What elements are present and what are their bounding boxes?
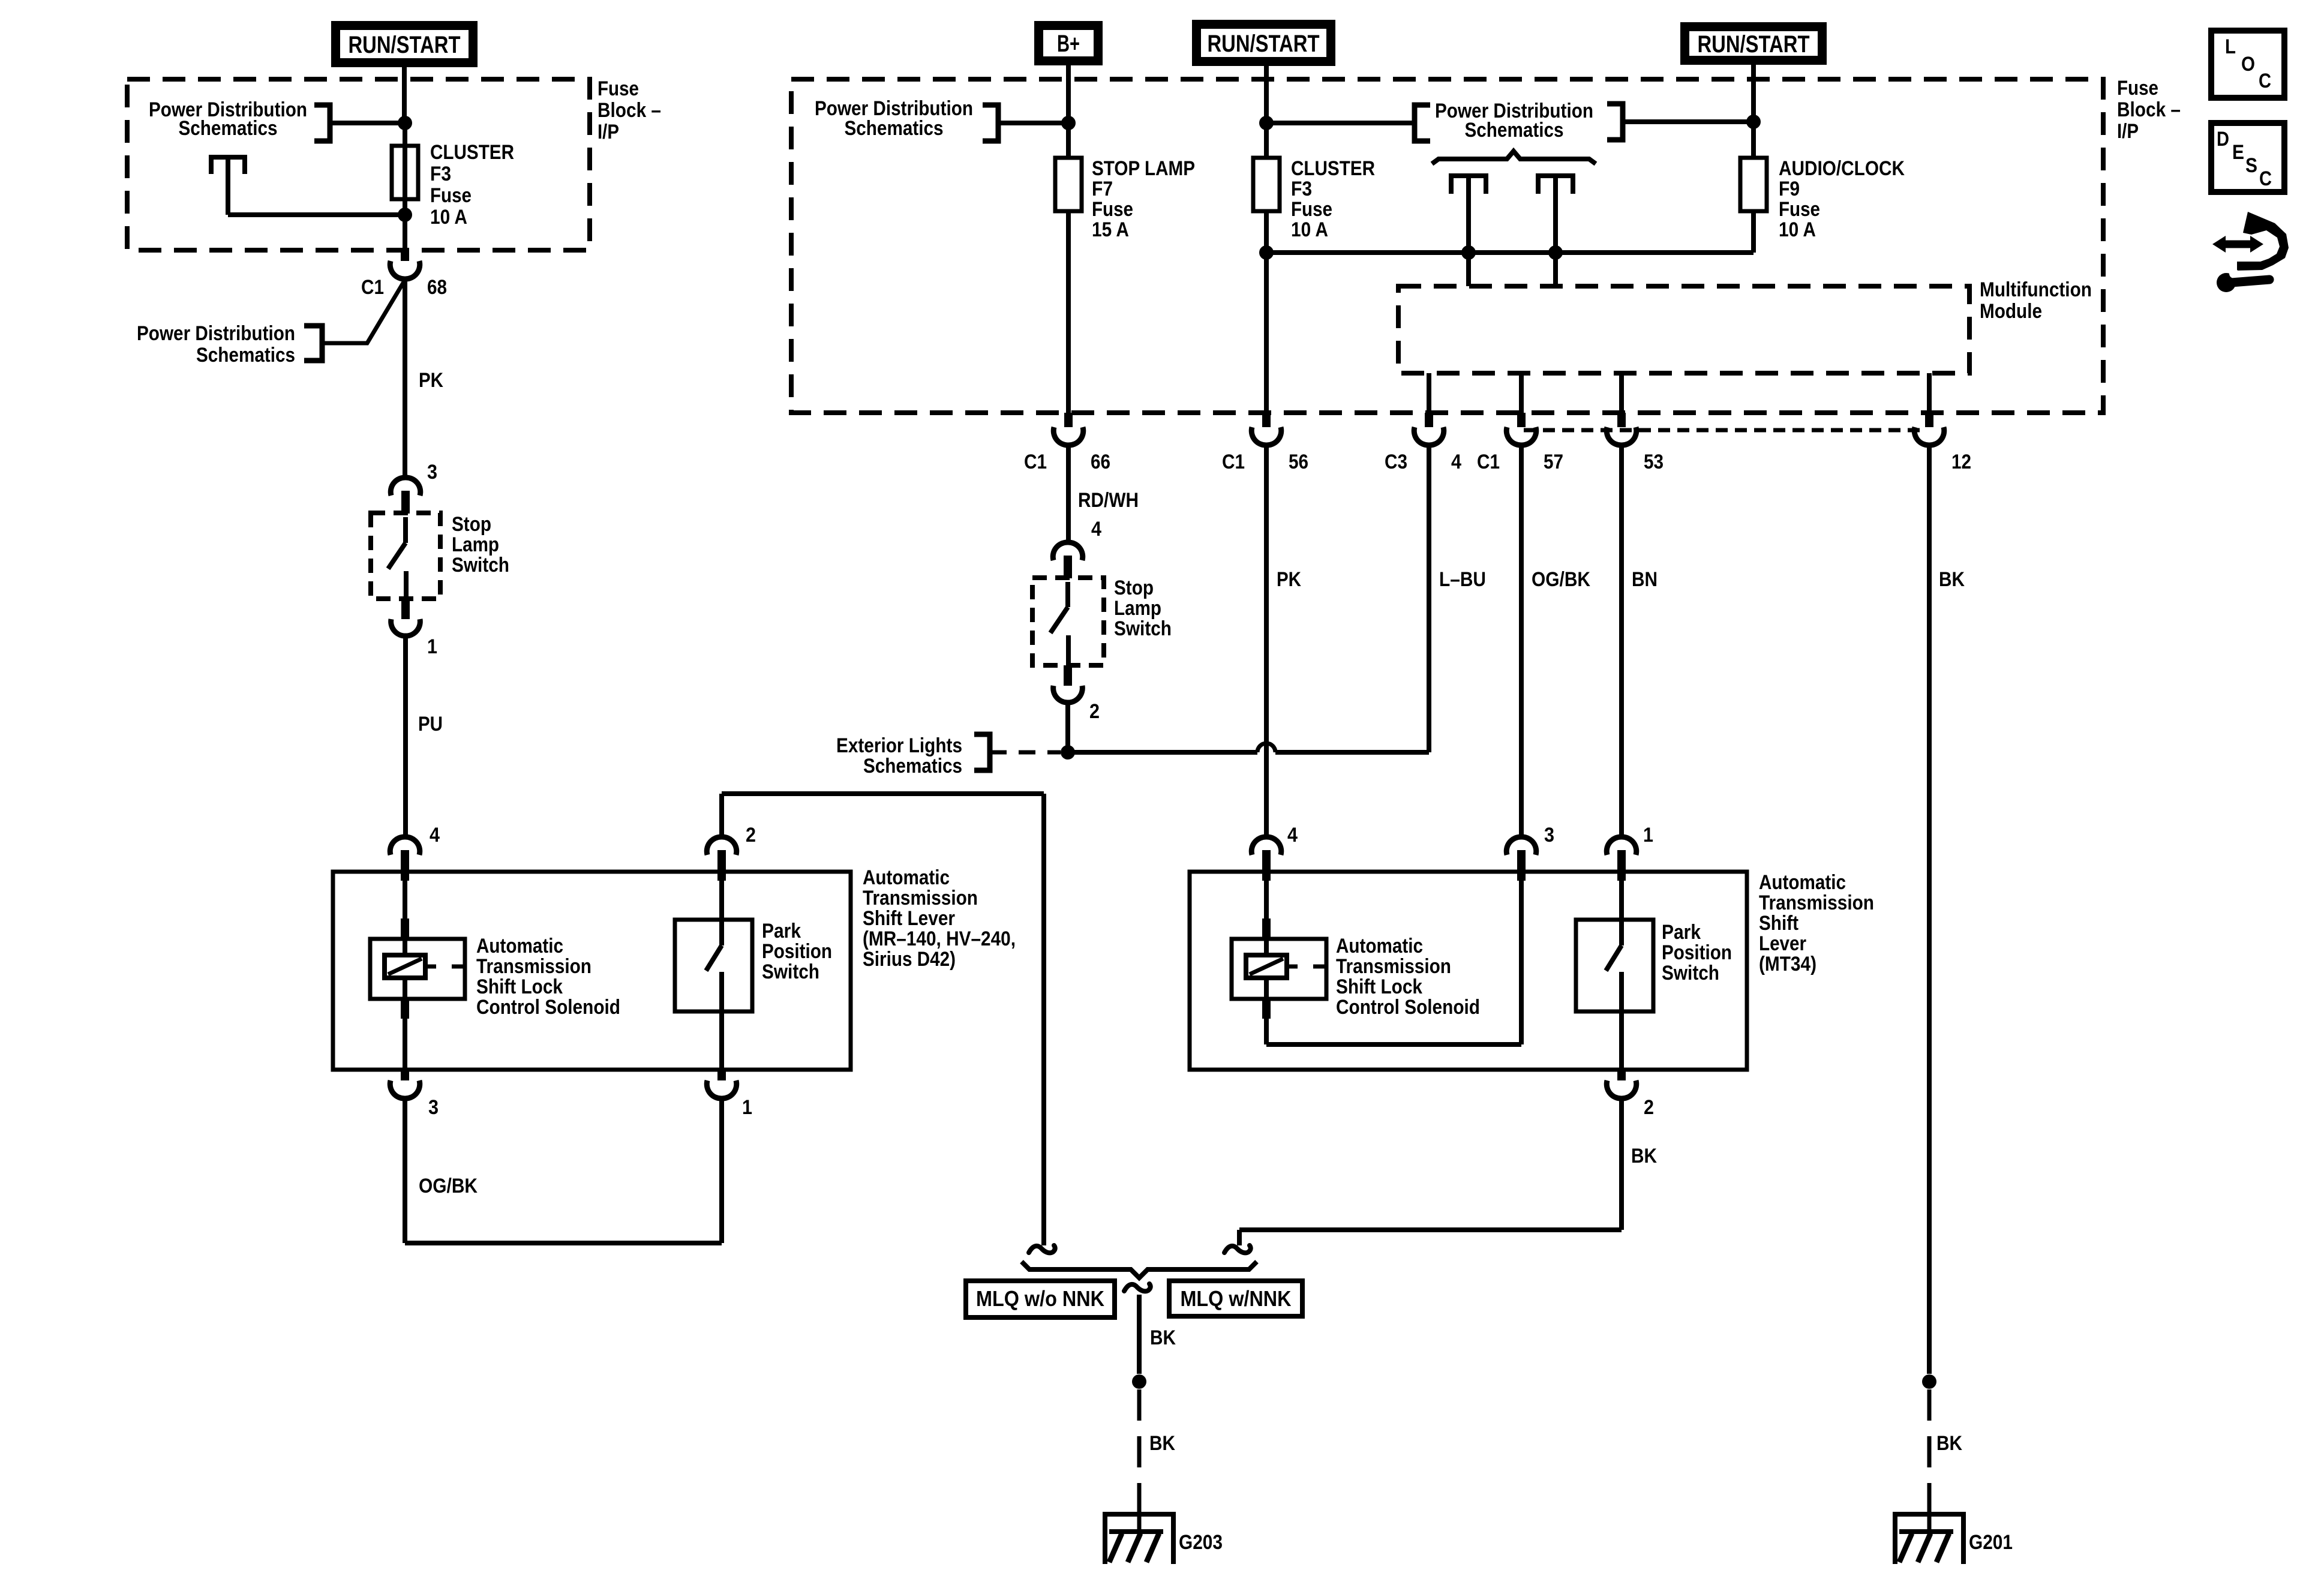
brace MLQ: [1022, 1262, 1257, 1278]
label Park Position Switch 2: [1662, 921, 1732, 984]
label pin 2 park 1: [746, 824, 756, 846]
node fork B: [1548, 245, 1563, 260]
label pin 2 stop lamp 2: [1089, 700, 1100, 723]
wrench icon: [2217, 269, 2269, 292]
svg-text:Multifunction: Multifunction: [1980, 278, 2092, 301]
label pin 1 park 2: [1643, 824, 1653, 846]
svg-text:RUN/START: RUN/START: [1208, 31, 1320, 57]
wire fork B down: [1553, 178, 1558, 286]
connector stop lamp 1 top: [391, 478, 421, 514]
svg-text:4: 4: [1287, 824, 1298, 846]
connector C1 56: [1251, 413, 1281, 445]
svg-text:C1: C1: [361, 276, 384, 299]
svg-text:Lever: Lever: [1759, 932, 1806, 955]
label BK right top: [1939, 568, 1965, 591]
svg-text:PK: PK: [419, 369, 443, 392]
shift lever box 1: [333, 872, 851, 1070]
connector C1 57: [1506, 413, 1536, 445]
inline connector left: [1029, 1245, 1055, 1253]
svg-text:3: 3: [427, 461, 437, 484]
pointer icon: [2212, 212, 2289, 271]
svg-text:Exterior Lights: Exterior Lights: [836, 734, 962, 757]
svg-text:66: 66: [1091, 451, 1110, 473]
DESC box: [2211, 123, 2284, 192]
label L-BU: [1439, 568, 1486, 591]
label pin 3 stop lamp 1: [427, 461, 437, 484]
svg-text:PK: PK: [1277, 568, 1301, 591]
solenoid coil 2: [1246, 940, 1287, 978]
svg-text:F3: F3: [430, 163, 451, 185]
svg-text:Lamp: Lamp: [452, 533, 499, 556]
svg-text:57: 57: [1544, 451, 1563, 473]
label Power Distribution Schematics 3: [815, 97, 973, 140]
label Stop Lamp Switch 1: [452, 513, 509, 577]
wire OG/BK left: [403, 1097, 407, 1243]
wire PDS3 to node: [998, 121, 1068, 125]
label AUDIO/CLOCK F9 Fuse 10A: [1779, 157, 1905, 241]
connector solenoid 1 pin3: [390, 1068, 420, 1098]
svg-text:I/P: I/P: [597, 121, 619, 143]
label STOP LAMP F7 Fuse 15A: [1092, 157, 1195, 241]
fuse F7: [1055, 158, 1082, 211]
fork symbol B: [1538, 176, 1573, 194]
label BN: [1632, 568, 1658, 591]
wire park2 to MLQ: [1239, 1230, 1622, 1245]
wire node to L-BU with hop: [1068, 743, 1429, 752]
wire module pin57 stub: [1519, 373, 1524, 413]
fuse block I/P 2 dashed box: [791, 79, 2103, 413]
stop lamp switch 2 bottom pin: [1053, 665, 1083, 703]
label C1 57: [1477, 451, 1563, 473]
svg-text:Fuse: Fuse: [1779, 198, 1820, 221]
shift lever box 2: [1190, 872, 1747, 1070]
svg-text:OG/BK: OG/BK: [1532, 568, 1590, 591]
wire PDS1 bracket to node: [330, 121, 405, 125]
svg-text:BK: BK: [1149, 1432, 1175, 1455]
label CLUSTER F3 Fuse 10A left: [430, 141, 514, 229]
svg-text:RD/WH: RD/WH: [1078, 489, 1139, 512]
svg-text:Automatic: Automatic: [1759, 871, 1846, 894]
wire module pin4 stub: [1427, 373, 1431, 413]
solenoid 2 sub-box: [1232, 939, 1326, 999]
dotted connector link C1: [1524, 428, 1923, 433]
label pin 4 stop lamp 2: [1091, 518, 1101, 541]
LOC box: [2211, 31, 2284, 98]
connector C3 4: [1414, 413, 1444, 445]
label pin 3 below box1: [428, 1096, 439, 1119]
svg-text:Transmission: Transmission: [1336, 955, 1451, 978]
svg-text:Position: Position: [762, 940, 832, 963]
label Stop Lamp Switch 2: [1114, 577, 1172, 640]
label pin 4 solenoid 2: [1287, 824, 1298, 846]
wire through fuse F3-1: [403, 123, 407, 215]
pointer bracket PDS1: [314, 105, 330, 141]
svg-text:10 A: 10 A: [430, 206, 467, 229]
pointer bracket PDS2: [304, 326, 322, 361]
fuse F9: [1740, 158, 1767, 211]
svg-text:Automatic: Automatic: [476, 935, 563, 957]
wire PU: [403, 636, 408, 836]
svg-text:Power Distribution: Power Distribution: [137, 322, 295, 345]
solenoid coil 1: [385, 940, 425, 978]
power box RUN/START 3: [1680, 22, 1827, 65]
connector solenoid 1 pin4: [390, 837, 420, 881]
stop lamp switch 1 bottom pin: [391, 599, 421, 636]
stop lamp switch 2 dashed box: [1032, 578, 1104, 665]
label C1 66: [1024, 451, 1110, 473]
wire PK: [403, 279, 407, 478]
svg-text:F3: F3: [1291, 178, 1312, 200]
wire RUN2 to PDS4: [1266, 121, 1415, 125]
svg-text:BK: BK: [1150, 1326, 1176, 1349]
svg-text:4: 4: [1451, 451, 1461, 473]
wire PK middle: [1264, 445, 1269, 837]
svg-text:56: 56: [1289, 451, 1308, 473]
svg-text:Lamp: Lamp: [1114, 597, 1161, 620]
label BK G201: [1936, 1432, 1962, 1455]
wire fork to node2: [228, 160, 405, 215]
svg-text:BN: BN: [1632, 568, 1658, 591]
svg-text:C: C: [2259, 70, 2271, 92]
svg-text:Shift Lever: Shift Lever: [863, 907, 955, 930]
svg-text:Schematics: Schematics: [863, 755, 962, 778]
wire F3-2 down: [1264, 211, 1269, 413]
svg-text:10 A: 10 A: [1779, 218, 1816, 241]
label BK G203: [1149, 1432, 1175, 1455]
connector C1 68: [390, 249, 420, 279]
label C1 56: [1222, 451, 1308, 473]
stop lamp switch 1 dashed box: [371, 513, 440, 599]
wire BK park2: [1619, 1097, 1624, 1230]
solenoid 1 dash link: [425, 965, 465, 969]
wire B+ down: [1066, 65, 1071, 158]
stop lamp switch 2 contacts: [1050, 582, 1068, 665]
svg-text:BK: BK: [1939, 568, 1965, 591]
svg-text:3: 3: [1544, 824, 1554, 846]
svg-text:BK: BK: [1631, 1145, 1657, 1167]
svg-text:B+: B+: [1057, 31, 1080, 57]
power box RUN/START 1: [331, 21, 478, 67]
ground G201: [1895, 1497, 1963, 1564]
label G203: [1179, 1531, 1223, 1554]
wire fork A down: [1466, 178, 1471, 286]
svg-text:AUDIO/CLOCK: AUDIO/CLOCK: [1779, 157, 1905, 180]
svg-text:C1: C1: [1222, 451, 1245, 473]
svg-text:Shift Lock: Shift Lock: [1336, 975, 1422, 998]
svg-text:Sirius D42): Sirius D42): [863, 948, 956, 971]
svg-text:(MR–140, HV–240,: (MR–140, HV–240,: [863, 927, 1016, 950]
pointer bracket PDS4 left: [1415, 105, 1430, 141]
wire module pin12 stub: [1927, 373, 1932, 413]
connector park 1 pin1: [707, 1068, 737, 1098]
connector 12: [1914, 413, 1944, 445]
label pin 1 below box1: [742, 1096, 752, 1119]
fuse F3 middle: [1253, 158, 1280, 211]
power box B+: [1034, 21, 1103, 65]
node RUN2 junction: [1259, 116, 1274, 130]
label Power Distribution Schematics 2: [137, 322, 295, 367]
svg-text:15 A: 15 A: [1092, 218, 1129, 241]
label BK splice: [1150, 1326, 1176, 1349]
connector park 2 pin1: [1607, 837, 1637, 881]
wire u-loop bottom: [405, 1097, 722, 1243]
label C1: [361, 276, 384, 299]
connector C1 66: [1053, 413, 1083, 445]
wire diagonal to PDS2: [325, 282, 404, 343]
brace PDS4: [1432, 151, 1596, 164]
inline connector center: [1124, 1284, 1151, 1291]
svg-text:Block –: Block –: [2117, 98, 2181, 121]
label Multifunction Module: [1980, 278, 2092, 323]
solenoid 1 sub-box: [370, 939, 465, 999]
svg-text:Fuse: Fuse: [597, 77, 639, 100]
connector solenoid 2 pin4: [1251, 837, 1281, 881]
node B+ junction: [1061, 116, 1076, 130]
dashed wire to G203: [1137, 1389, 1142, 1497]
wire bus to F9: [1266, 250, 1753, 255]
wire PDS4 to F9 node: [1623, 119, 1753, 124]
ground G203: [1105, 1497, 1173, 1564]
connector park 1 pin2: [707, 837, 737, 881]
label BK park2: [1631, 1145, 1657, 1167]
svg-text:O: O: [2241, 53, 2255, 76]
svg-text:Schematics: Schematics: [196, 344, 295, 367]
wire BK splice: [1137, 1295, 1142, 1374]
label CLUSTER F3 Fuse 10A middle: [1291, 157, 1375, 241]
wire L-BU: [1427, 445, 1431, 752]
connector park 2 pin2: [1607, 1068, 1637, 1098]
label Automatic Transmission Shift Lever MR140: [863, 866, 1016, 971]
fork symbol A: [1451, 176, 1486, 194]
svg-text:Shift Lock: Shift Lock: [476, 975, 563, 998]
label Exterior Lights Schematics: [836, 734, 962, 778]
label pin 3 solenoid 2: [1544, 824, 1554, 846]
svg-text:68: 68: [427, 276, 447, 299]
svg-text:Schematics: Schematics: [179, 117, 278, 140]
label Park Position Switch 1: [762, 920, 832, 983]
label Power Distribution Schematics 4: [1435, 100, 1593, 142]
wire BN: [1619, 445, 1624, 837]
svg-text:L–BU: L–BU: [1439, 568, 1486, 591]
svg-text:Fuse: Fuse: [2117, 77, 2158, 100]
svg-text:Shift: Shift: [1759, 912, 1798, 935]
label pin 1 stop lamp 1: [427, 635, 437, 658]
label 53: [1644, 451, 1664, 473]
dashed wire exterior lights: [990, 751, 1061, 755]
svg-text:C: C: [2259, 167, 2272, 190]
MLQ w/NNK box: [1169, 1281, 1302, 1316]
svg-text:RUN/START: RUN/START: [349, 32, 461, 58]
label PU wire: [418, 713, 443, 736]
svg-text:Park: Park: [762, 920, 801, 942]
svg-text:CLUSTER: CLUSTER: [430, 141, 514, 164]
park position switch 2 box: [1576, 920, 1653, 1011]
wire OG/BK middle: [1519, 445, 1524, 837]
park switch 1 contacts: [706, 881, 722, 1070]
fuse block I/P 1 dashed box: [127, 79, 590, 250]
node BK right: [1922, 1374, 1936, 1389]
svg-text:1: 1: [742, 1096, 752, 1119]
label Power Distribution Schematics 1: [149, 98, 307, 140]
svg-text:S: S: [2245, 154, 2257, 177]
svg-text:Module: Module: [1980, 300, 2042, 323]
wire solenoid 2 out: [1262, 881, 1521, 1044]
fuse F3 left: [392, 146, 418, 199]
wire solenoid 1 out: [401, 978, 409, 1070]
wire park1 pin2 to MLQ: [722, 794, 1044, 1245]
svg-text:C1: C1: [1024, 451, 1047, 473]
svg-text:STOP LAMP: STOP LAMP: [1092, 157, 1195, 180]
label C3 4: [1385, 451, 1461, 473]
connector 53: [1607, 413, 1637, 445]
label pin 2 below box2: [1644, 1096, 1654, 1119]
svg-text:Switch: Switch: [452, 554, 509, 577]
svg-text:C1: C1: [1477, 451, 1500, 473]
svg-text:E: E: [2232, 141, 2244, 164]
connector stop lamp 2 top: [1053, 542, 1083, 578]
dashed wire to G201: [1927, 1389, 1932, 1497]
wire F7 down: [1066, 211, 1071, 413]
svg-text:Stop: Stop: [1114, 577, 1154, 599]
wire RD/WH: [1066, 445, 1071, 542]
svg-text:Schematics: Schematics: [1465, 119, 1564, 142]
wire into solenoid 2: [1262, 881, 1271, 940]
svg-text:1: 1: [427, 635, 437, 658]
svg-text:Transmission: Transmission: [863, 887, 978, 909]
svg-text:CLUSTER: CLUSTER: [1291, 157, 1375, 180]
wire stop lamp 2 to node: [1065, 703, 1070, 752]
svg-text:BK: BK: [1936, 1432, 1962, 1455]
label G201: [1969, 1531, 2013, 1554]
svg-text:2: 2: [1644, 1096, 1654, 1119]
svg-text:PU: PU: [418, 713, 443, 736]
svg-text:Control Solenoid: Control Solenoid: [1336, 996, 1480, 1019]
label Automatic Transmission Shift Lock Control Solenoid 2: [1336, 935, 1480, 1019]
svg-text:1: 1: [1643, 824, 1653, 846]
svg-text:Fuse: Fuse: [430, 184, 472, 207]
pointer bracket PDS4 right: [1607, 104, 1623, 140]
label 68: [427, 276, 447, 299]
pointer bracket Exterior Lights: [974, 734, 990, 770]
wire into solenoid 1: [401, 881, 409, 940]
wire RUN/START3 down: [1751, 65, 1756, 122]
park position switch 1 box: [675, 920, 752, 1011]
label OG/BK left: [419, 1175, 478, 1197]
svg-text:Park: Park: [1662, 921, 1701, 944]
svg-text:MLQ w/o NNK: MLQ w/o NNK: [976, 1286, 1104, 1311]
svg-text:G203: G203: [1179, 1531, 1223, 1554]
svg-text:Switch: Switch: [762, 960, 819, 983]
svg-text:Control Solenoid: Control Solenoid: [476, 996, 620, 1019]
svg-text:D: D: [2217, 128, 2229, 151]
wire RUN/START1 to fuse block: [402, 67, 407, 123]
wire fuse to block edge: [403, 215, 407, 250]
node exterior lights: [1061, 745, 1075, 760]
solenoid 2 dash link: [1287, 965, 1326, 969]
svg-text:Position: Position: [1662, 941, 1732, 964]
node F3-2 bottom: [1259, 245, 1274, 260]
svg-text:Fuse: Fuse: [1092, 198, 1133, 221]
svg-text:2: 2: [746, 824, 756, 846]
park switch 2 contacts: [1606, 881, 1622, 1070]
connector solenoid 2 pin3: [1506, 837, 1536, 881]
svg-text:F7: F7: [1092, 178, 1113, 200]
node fork A: [1461, 245, 1476, 260]
svg-text:Transmission: Transmission: [476, 955, 591, 978]
MLQ w/o NNK box: [966, 1281, 1115, 1317]
node F9 junction: [1746, 115, 1761, 129]
label Fuse Block - I/P 1: [597, 77, 661, 143]
svg-text:2: 2: [1089, 700, 1100, 723]
stop lamp switch 1 contacts: [388, 517, 406, 599]
label OG/BK middle: [1532, 568, 1590, 591]
fork symbol PDS1: [211, 157, 245, 174]
wire RUN/START2 down: [1264, 66, 1269, 158]
svg-text:(MT34): (MT34): [1759, 953, 1816, 975]
svg-text:3: 3: [428, 1096, 439, 1119]
svg-text:Automatic: Automatic: [1336, 935, 1423, 957]
svg-text:I/P: I/P: [2117, 120, 2139, 143]
svg-text:53: 53: [1644, 451, 1664, 473]
svg-text:F9: F9: [1779, 178, 1800, 200]
label PK wire: [419, 369, 443, 392]
label 12: [1951, 451, 1971, 473]
svg-text:4: 4: [1091, 518, 1101, 541]
node junction F3-1 top: [398, 116, 412, 130]
svg-text:Stop: Stop: [452, 513, 491, 536]
svg-text:Transmission: Transmission: [1759, 891, 1874, 914]
svg-text:Block –: Block –: [597, 99, 661, 122]
svg-text:Fuse: Fuse: [1291, 198, 1332, 221]
node splice: [1132, 1374, 1146, 1389]
svg-text:12: 12: [1951, 451, 1971, 473]
svg-text:MLQ w/NNK: MLQ w/NNK: [1181, 1286, 1292, 1311]
svg-text:10 A: 10 A: [1291, 218, 1328, 241]
svg-text:Schematics: Schematics: [845, 117, 944, 140]
svg-text:4: 4: [430, 824, 440, 846]
power box RUN/START 2: [1192, 20, 1335, 66]
multifunction module dashed box: [1398, 286, 1969, 373]
label Automatic Transmission Shift Lock Control Solenoid 1: [476, 935, 620, 1019]
label pin 4 solenoid 1: [430, 824, 440, 846]
label Fuse Block - I/P 2: [2117, 77, 2181, 143]
svg-text:Switch: Switch: [1114, 617, 1172, 640]
svg-text:OG/BK: OG/BK: [419, 1175, 478, 1197]
pointer bracket PDS3: [983, 105, 998, 141]
label Automatic Transmission Shift Lever MT34: [1759, 871, 1874, 975]
svg-text:L: L: [2225, 35, 2236, 58]
wire BK right: [1927, 445, 1932, 1374]
svg-text:RUN/START: RUN/START: [1698, 31, 1810, 58]
svg-text:Automatic: Automatic: [863, 866, 950, 889]
wire module pin53 stub: [1619, 373, 1624, 413]
svg-text:C3: C3: [1385, 451, 1407, 473]
svg-text:G201: G201: [1969, 1531, 2013, 1554]
node junction F3-1 bottom: [398, 208, 412, 222]
inline connector right: [1224, 1245, 1251, 1253]
label RD/WH: [1078, 489, 1139, 512]
label PK middle: [1277, 568, 1301, 591]
svg-text:Switch: Switch: [1662, 962, 1719, 984]
wire F9: [1751, 122, 1756, 253]
